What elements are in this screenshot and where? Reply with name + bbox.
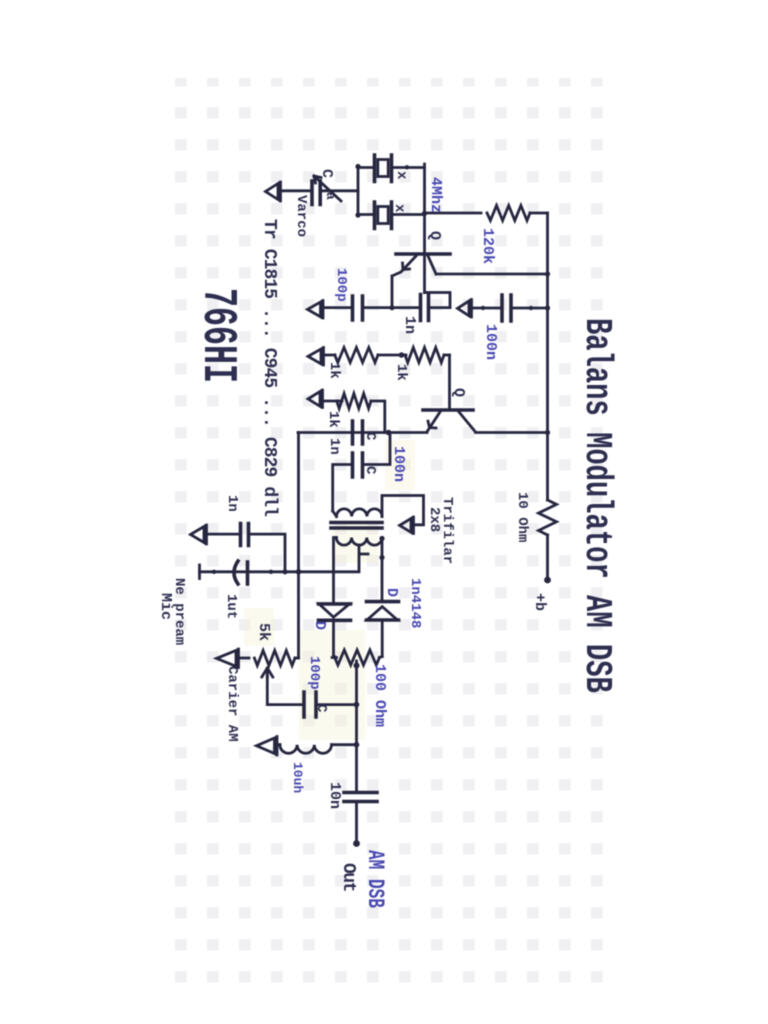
- svg-text:100 Ohm: 100 Ohm: [371, 664, 388, 727]
- svg-text:100n: 100n: [390, 446, 407, 482]
- svg-text:100n: 100n: [482, 324, 499, 360]
- svg-text:100p: 100p: [333, 268, 349, 302]
- svg-text:Q: Q: [426, 231, 443, 240]
- svg-text:1n: 1n: [224, 495, 240, 512]
- svg-text:766HI: 766HI: [190, 288, 244, 383]
- svg-text:Carier AM: Carier AM: [224, 666, 240, 742]
- svg-text:Tr C1815 ... C945 ... C829 dll: Tr C1815 ... C945 ... C829 dll: [259, 219, 279, 517]
- svg-text:1n4148: 1n4148: [407, 578, 423, 628]
- svg-text:Q: Q: [450, 388, 467, 397]
- svg-text:Mic: Mic: [157, 593, 174, 620]
- svg-text:1n: 1n: [326, 438, 342, 455]
- svg-text:1ut: 1ut: [223, 594, 239, 619]
- svg-text:120k: 120k: [479, 228, 496, 264]
- svg-text:10n: 10n: [326, 782, 343, 809]
- svg-text:10 Ohm: 10 Ohm: [514, 492, 530, 542]
- svg-text:x: x: [391, 204, 407, 213]
- svg-text:1k: 1k: [325, 411, 341, 428]
- svg-text:Balans Modulator AM DSB: Balans Modulator AM DSB: [575, 318, 618, 693]
- svg-text:10uh: 10uh: [290, 762, 305, 793]
- svg-text:C: C: [313, 704, 329, 713]
- svg-text:a: a: [323, 192, 338, 200]
- svg-text:D: D: [311, 621, 328, 630]
- svg-text:AM DSB: AM DSB: [362, 850, 389, 908]
- svg-text:100p: 100p: [306, 656, 322, 690]
- svg-text:C: C: [362, 466, 378, 475]
- svg-text:x: x: [393, 171, 409, 180]
- svg-text:1n: 1n: [401, 316, 418, 334]
- svg-text:C: C: [318, 169, 335, 178]
- svg-text:2x8: 2x8: [426, 507, 442, 532]
- svg-text:C: C: [362, 432, 378, 441]
- svg-text:1k: 1k: [326, 362, 342, 379]
- svg-text:D: D: [383, 588, 400, 597]
- svg-text:4Mhz: 4Mhz: [427, 177, 444, 213]
- svg-text:+b: +b: [531, 593, 548, 611]
- svg-text:Out: Out: [338, 863, 358, 892]
- svg-text:1k: 1k: [393, 364, 409, 381]
- svg-text:5k: 5k: [255, 623, 272, 641]
- svg-text:Varco: Varco: [293, 195, 309, 237]
